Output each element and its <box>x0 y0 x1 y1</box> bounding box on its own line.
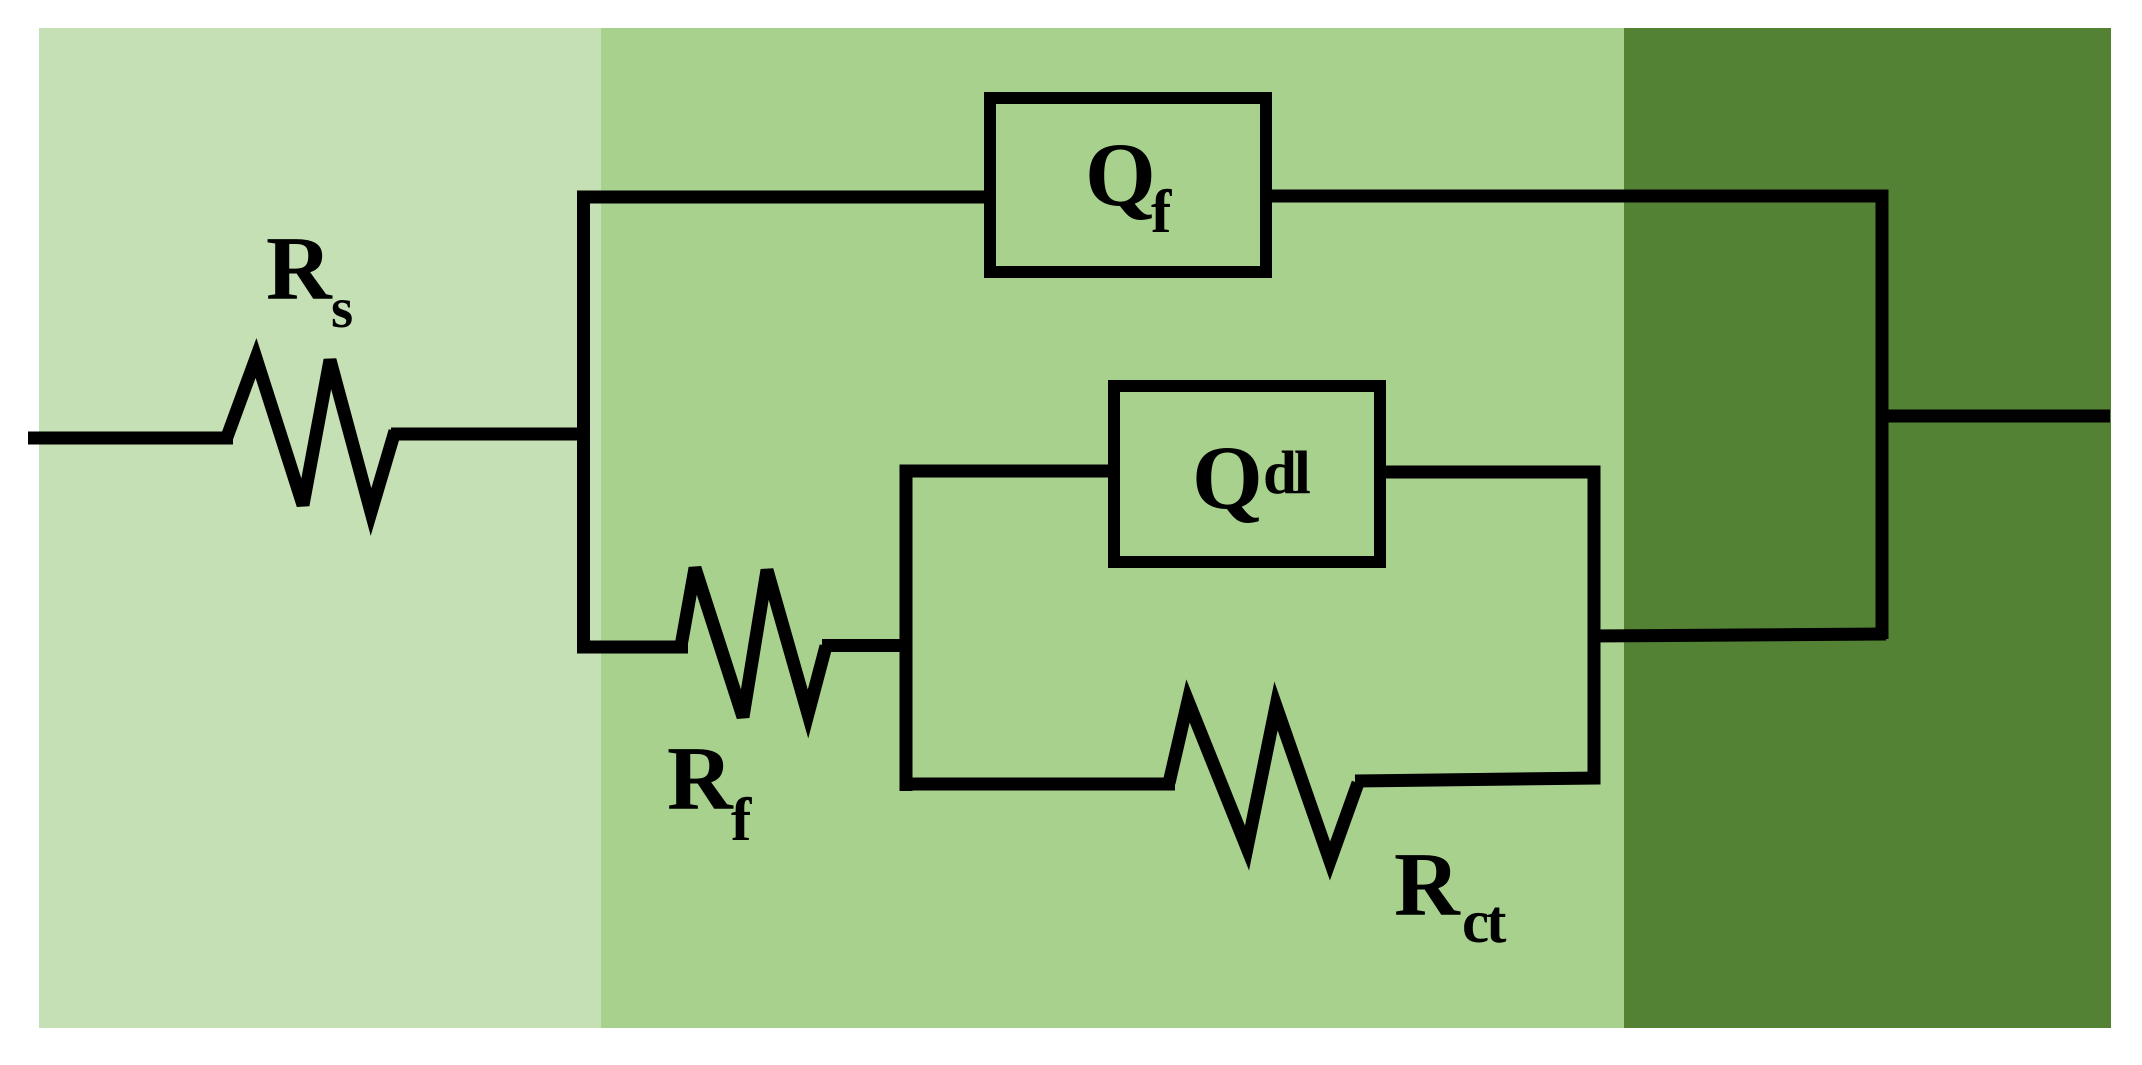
resistor R_f zigzag <box>681 568 826 717</box>
svg-text:f: f <box>1151 179 1172 246</box>
wire: bottom branch left (node A to R_f) <box>577 641 688 654</box>
svg-text:dl: dl <box>1263 440 1310 507</box>
wire: inner bottom branch left (node C to R_ct) <box>900 778 1176 791</box>
label Q_dl <box>1192 427 1310 528</box>
wire: top branch right (Q_f to node B) <box>1266 190 1888 203</box>
label R_s <box>266 218 353 340</box>
label R_f <box>667 728 752 854</box>
svg-text:ct: ct <box>1462 889 1507 956</box>
svg-text:Q: Q <box>1192 427 1263 528</box>
wire: R_f to inner parallel node <box>822 639 912 652</box>
node D: inner-right vertical bus <box>1588 466 1601 785</box>
node B: outer-right vertical bus <box>1876 190 1889 640</box>
node A: outer-left vertical bus <box>577 191 590 653</box>
CPE box Q_dl <box>1114 386 1380 562</box>
svg-text:R: R <box>667 728 734 829</box>
wire: inner parallel to node B <box>1588 634 1886 636</box>
svg-text:R: R <box>266 218 333 319</box>
wire: top branch left (node A to Q_f) <box>577 191 990 204</box>
svg-text:R: R <box>1394 834 1461 935</box>
background band: electrode (dark green) <box>1624 28 2111 1028</box>
node C: inner-left vertical bus <box>900 465 913 792</box>
label Q_f <box>1085 124 1172 246</box>
label R_ct <box>1394 834 1507 956</box>
background band: surface film (medium green) <box>601 28 1624 1028</box>
wire: left terminal lead <box>28 432 233 445</box>
resistor R_ct zigzag <box>1169 701 1358 861</box>
resistor R_s zigzag <box>227 358 395 512</box>
background band: electrolyte (light green) <box>39 28 601 1028</box>
wire: right terminal lead <box>1876 410 2110 423</box>
svg-text:Q: Q <box>1085 124 1156 225</box>
wire: R_ct to node D <box>1355 778 1600 781</box>
svg-text:f: f <box>731 787 752 854</box>
wire: R_s to outer parallel node <box>391 428 590 441</box>
wire: inner top branch right (Q_dl to node D) <box>1380 466 1600 479</box>
svg-text:s: s <box>331 277 353 340</box>
wire: inner top branch left (node C to Q_dl) <box>900 465 1115 478</box>
CPE box Q_f <box>990 98 1266 272</box>
